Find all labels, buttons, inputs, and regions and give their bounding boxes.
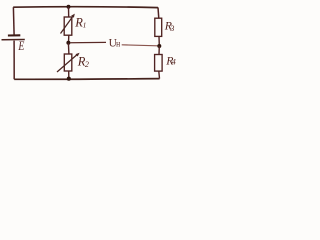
battery E: short thick plate: [8, 34, 20, 36]
svg-text:н: н: [116, 38, 120, 49]
resistor R2 adjustment arrow: [57, 55, 77, 72]
wire R1 bottom lead: [68, 35, 70, 43]
resistor R3 (body): [155, 18, 162, 36]
svg-text:2: 2: [85, 60, 89, 69]
node junction dot right middle (R3/R4/middle wire): [157, 44, 161, 48]
wire R3 bottom lead: [158, 36, 160, 46]
battery E: long thin plate: [2, 39, 25, 41]
node junction dot left middle (R1/R2/middle wire): [66, 41, 70, 45]
svg-text:1: 1: [83, 20, 87, 29]
node junction dot on top wire above R1: [67, 5, 71, 9]
resistor R2 (variable, body): [64, 54, 72, 71]
wire top (from top-left corner to top-right corner): [13, 6, 158, 9]
wire left lower (battery down to bottom-left corner): [13, 41, 15, 80]
wire middle left segment: [70, 41, 106, 43]
node junction dot bottom (R2/bottom wire): [67, 77, 71, 81]
wire R2 top lead: [67, 43, 70, 54]
wire bottom (bottom-left corner to bottom-right corner): [14, 78, 159, 81]
resistor R4 (body): [155, 55, 163, 72]
wire middle right segment: [122, 45, 158, 46]
wire left upper (top-left corner down to battery): [12, 7, 15, 35]
wire R4 top lead: [158, 46, 160, 55]
resistor R1 adjustment arrow: [61, 16, 74, 33]
svg-text:E: E: [18, 40, 25, 53]
resistor R1 (variable, body): [64, 17, 72, 35]
svg-text:3: 3: [169, 24, 174, 33]
wire R3 top lead (from top-right corner): [157, 7, 160, 18]
wire R4 bottom lead: [158, 71, 161, 79]
wire R1 top lead: [68, 7, 70, 18]
svg-text:4: 4: [172, 58, 176, 67]
wire R2 bottom lead: [68, 71, 70, 79]
